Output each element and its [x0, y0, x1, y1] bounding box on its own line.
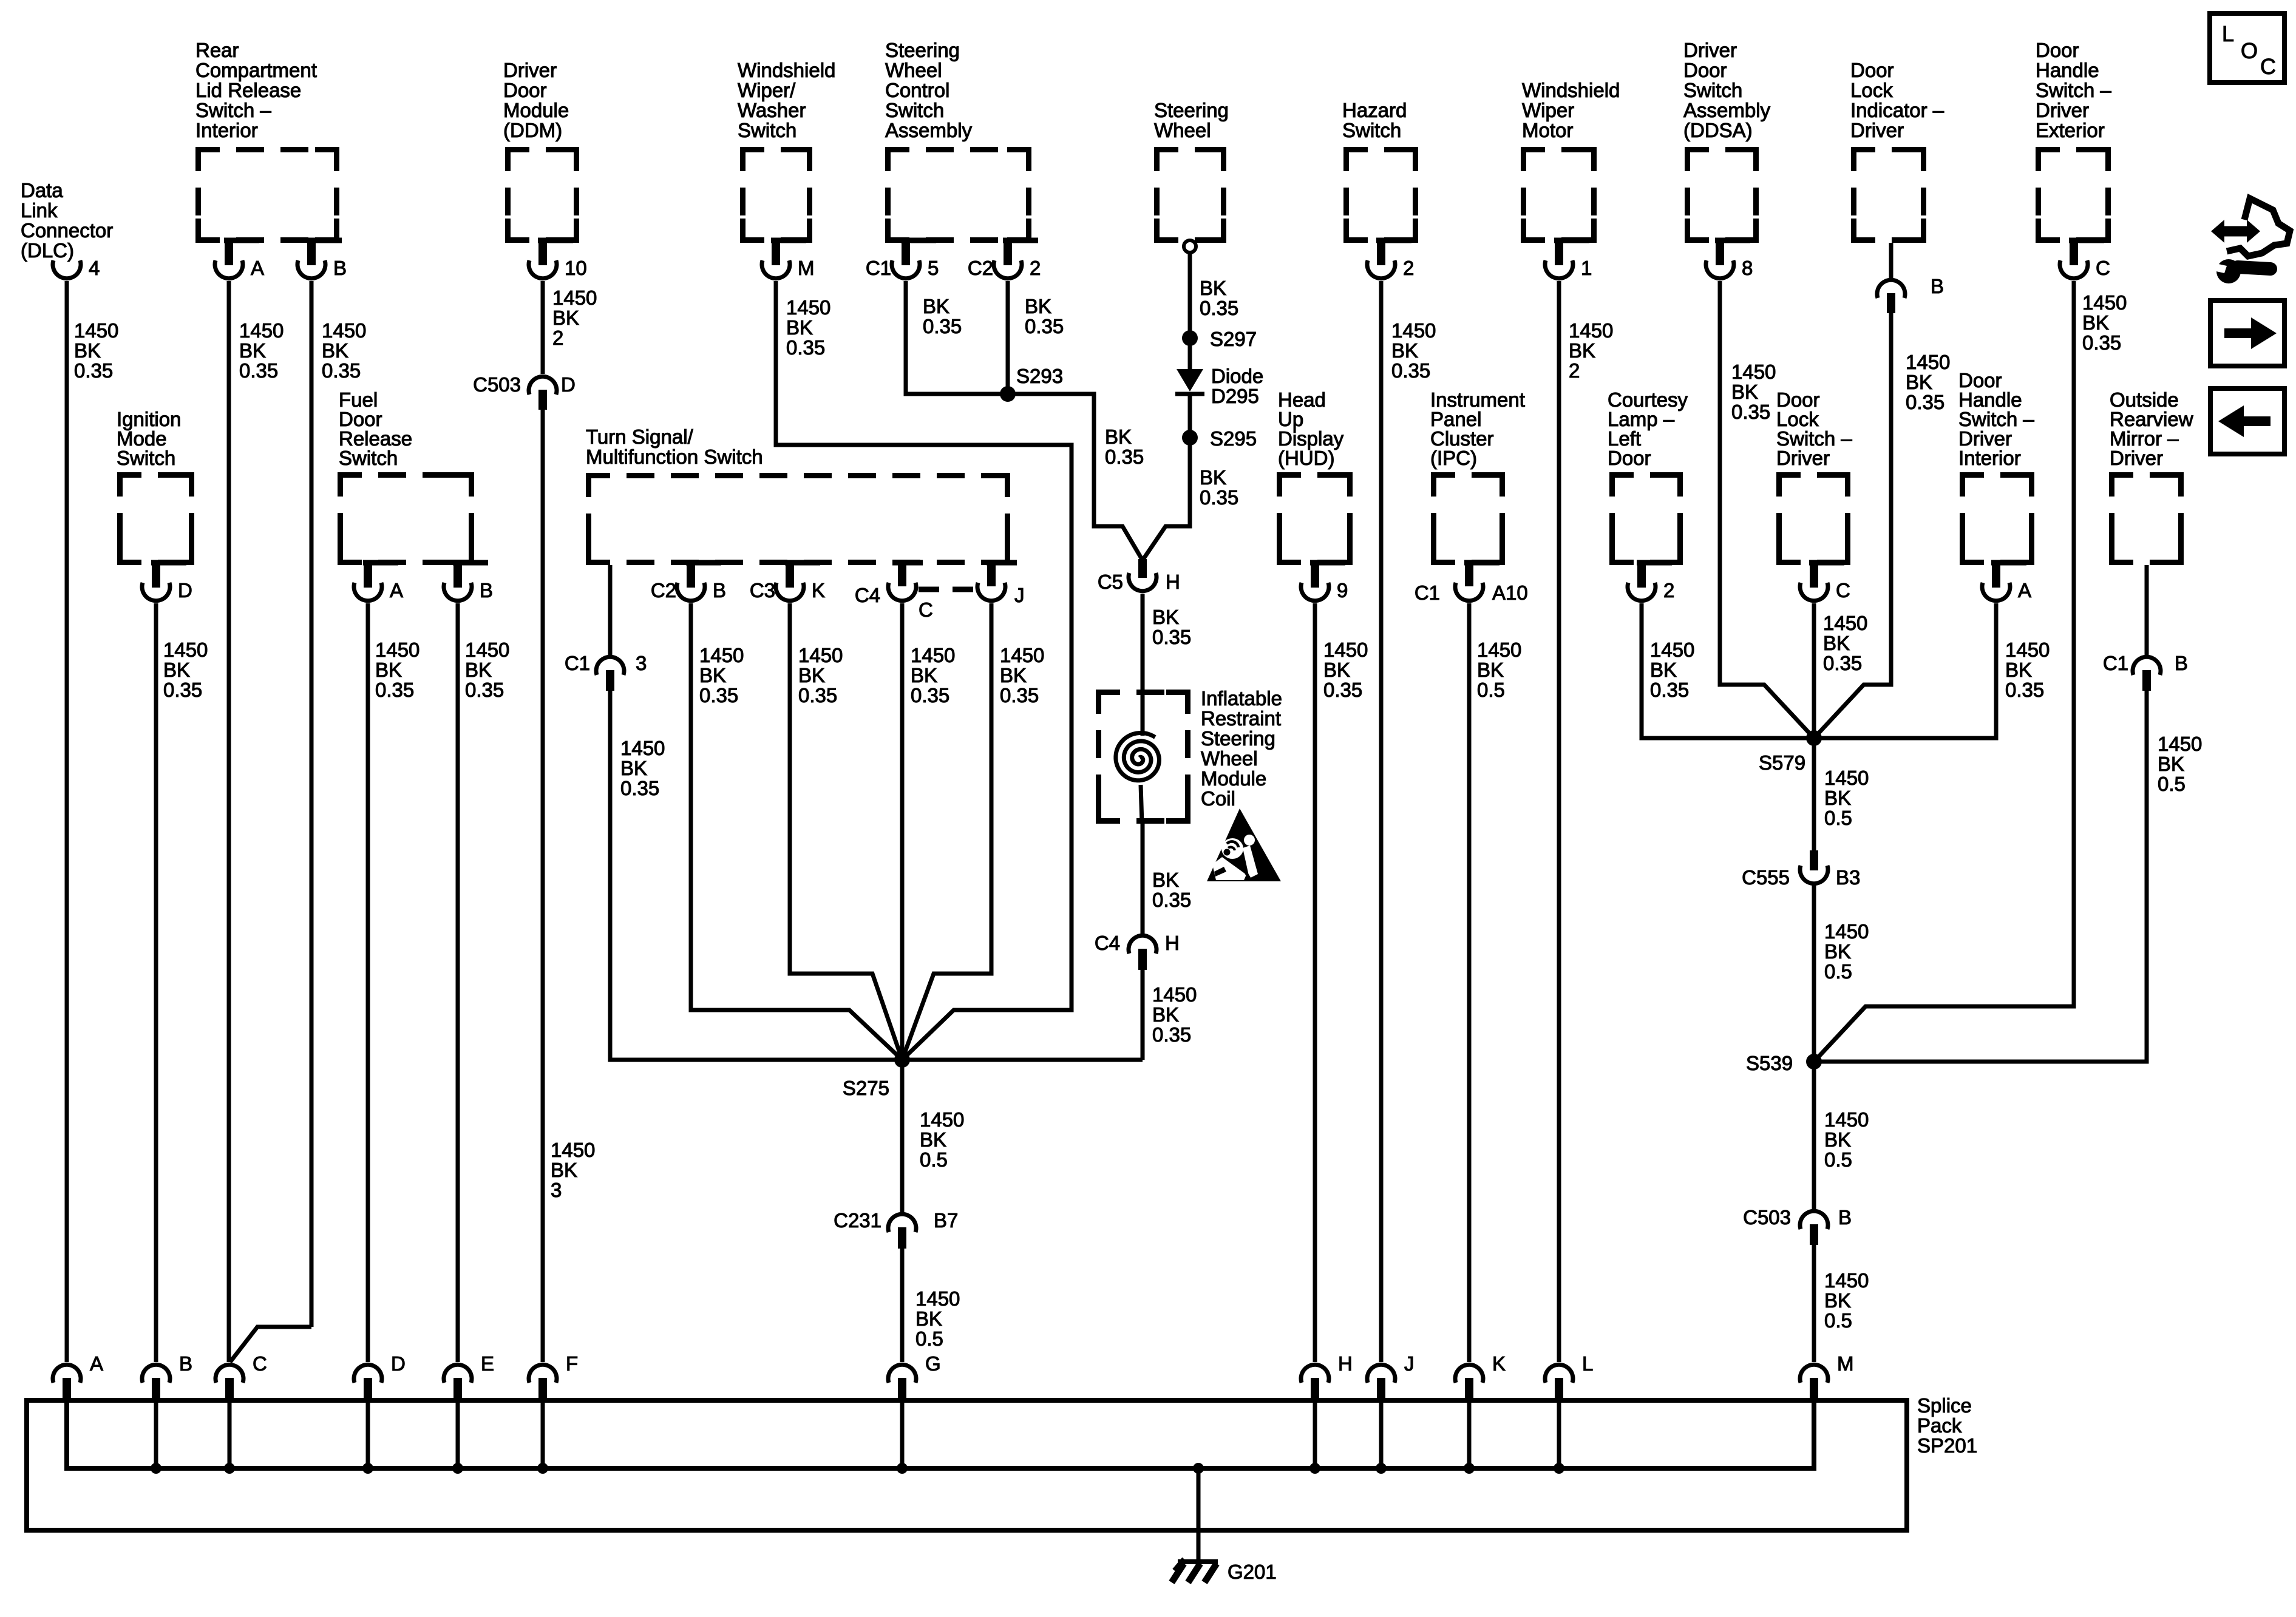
label 1450 BK 0.35 (fuel door pin B wire): [465, 639, 509, 701]
svg-text:C503: C503: [473, 373, 521, 396]
svg-text:Washer: Washer: [738, 99, 806, 121]
svg-text:Wheel: Wheel: [885, 59, 942, 81]
wire terminal A stub to ground bus corner: [65, 1398, 69, 1402]
svg-text:Driver: Driver: [1776, 447, 1830, 469]
svg-text:0.35: 0.35: [786, 336, 825, 359]
svg-text:C555: C555: [1742, 866, 1790, 889]
svg-text:1450: 1450: [1323, 639, 1368, 661]
wire C3-K to splice S275: [790, 603, 902, 1060]
wire turn signal C1 pin out of box: [608, 565, 613, 656]
label 1450 BK 0.35 (door handle exterior wire): [2082, 291, 2127, 354]
svg-text:0.35: 0.35: [1200, 297, 1238, 319]
label 1450 BK 0.35 (DLC ground wire): [74, 319, 118, 382]
svg-text:BK: BK: [375, 659, 402, 681]
svg-text:B: B: [1838, 1206, 1852, 1229]
component box: Inflatable Restraint Steering Wheel Module Coil: [1099, 687, 1282, 821]
svg-text:Switch: Switch: [885, 99, 944, 121]
svg-text:0.35: 0.35: [322, 359, 361, 382]
svg-text:0.35: 0.35: [239, 359, 278, 382]
svg-text:0.35: 0.35: [911, 684, 949, 707]
svg-text:Switch –: Switch –: [195, 99, 271, 121]
svg-text:S293: S293: [1016, 365, 1063, 387]
wire diode D295 to S295: [1188, 394, 1192, 438]
label 1450 BK 0.35 (rear compartment pin A wire): [239, 319, 284, 382]
svg-text:3: 3: [551, 1179, 562, 1201]
label 1450 BK 0.35 (C3-K wire): [798, 644, 843, 707]
svg-text:D: D: [391, 1352, 406, 1375]
svg-text:1450: 1450: [1391, 319, 1436, 342]
svg-text:1450: 1450: [1824, 767, 1869, 789]
connector C1 pin B of outside rearview mirror (inline): [2103, 652, 2188, 691]
svg-text:BK: BK: [74, 339, 101, 362]
svg-text:0.35: 0.35: [375, 679, 414, 701]
label 1450 BK 0.35 (pin M wire): [786, 296, 830, 359]
connector C503 pin D (inline): [473, 373, 576, 410]
svg-text:1450: 1450: [920, 1108, 964, 1131]
svg-text:0.35: 0.35: [1200, 486, 1238, 509]
navigation arrow icon (continued right): [2210, 300, 2284, 366]
splice pack terminal D: [354, 1352, 406, 1398]
svg-text:8: 8: [1742, 257, 1753, 279]
svg-text:0.35: 0.35: [699, 684, 738, 707]
component box: Steering Wheel Control Switch Assembly: [885, 39, 1029, 240]
svg-text:BK: BK: [920, 1128, 946, 1151]
svg-text:C: C: [2260, 54, 2276, 79]
svg-text:0.35: 0.35: [1650, 679, 1689, 701]
wire terminal B to ground bus: [151, 1398, 161, 1474]
label 1450 BK 0.35 (C4-C wire): [911, 644, 955, 707]
label 1450 BK 0.35 (hazard switch wire): [1391, 319, 1436, 382]
wire door handle interior pin A to splice S579: [1816, 603, 1996, 738]
svg-text:C1: C1: [565, 652, 590, 674]
wire terminal E to ground bus: [452, 1398, 463, 1474]
svg-text:Switch: Switch: [738, 119, 796, 141]
wire DLC pin 4 to splice pack terminal A: [65, 281, 69, 1362]
svg-text:Module: Module: [1201, 767, 1266, 790]
splice pack internal ground bus: [67, 1398, 1814, 1468]
svg-text:BK: BK: [2158, 753, 2184, 775]
connector pin B of door lock indicator (inline): [1877, 275, 1944, 313]
label 1450 BK 0.5 (ORM wire): [2158, 733, 2202, 795]
svg-text:1450: 1450: [1824, 1108, 1869, 1131]
svg-text:L: L: [2222, 21, 2234, 46]
wire ignition mode switch pin D to splice terminal B: [154, 603, 158, 1362]
wire fuel door release pin A to splice terminal D: [366, 603, 370, 1362]
svg-text:0.35: 0.35: [1152, 1023, 1191, 1046]
svg-text:S297: S297: [1210, 328, 1257, 350]
svg-text:Coil: Coil: [1201, 787, 1235, 810]
wire S275 to connector C231: [900, 1060, 905, 1213]
svg-text:1450: 1450: [1477, 639, 1521, 661]
svg-text:5: 5: [928, 257, 939, 279]
svg-text:1450: 1450: [2082, 291, 2127, 314]
component box: Hazard Switch: [1342, 99, 1416, 240]
svg-text:B: B: [713, 579, 726, 602]
wire terminal J to ground bus: [1376, 1398, 1387, 1474]
splice pack terminal B: [142, 1352, 192, 1398]
connector C5 pin H (to inflatable restraint coil): [1098, 559, 1180, 593]
svg-text:0.5: 0.5: [1824, 960, 1852, 983]
svg-text:Wiper: Wiper: [1522, 99, 1574, 121]
pin 4 of DLC: [53, 257, 100, 279]
svg-text:B3: B3: [1836, 866, 1860, 889]
wire hazard switch pin 2 to splice terminal J: [1379, 281, 1384, 1362]
svg-text:BK: BK: [1824, 787, 1851, 809]
svg-text:BK: BK: [465, 659, 492, 681]
svg-text:0.5: 0.5: [920, 1148, 948, 1171]
svg-text:D: D: [178, 579, 192, 602]
svg-text:Connector: Connector: [21, 219, 113, 242]
svg-text:1450: 1450: [375, 639, 419, 661]
svg-text:BK: BK: [1650, 659, 1677, 681]
pin C1 5 of steering wheel control switch assembly: [866, 240, 939, 279]
svg-text:0.35: 0.35: [74, 359, 113, 382]
pin C2 B of turn signal switch: [651, 563, 726, 602]
label 1450 BK 0.35 (rear compartment pin B wire): [322, 319, 366, 382]
splice pack terminal E: [444, 1352, 494, 1398]
svg-text:C: C: [1836, 579, 1850, 602]
svg-text:Pack: Pack: [1917, 1414, 1962, 1437]
label BK 0.35 (S295 output wire): [1200, 466, 1238, 509]
label 1450 BK 0.35 (C1-3 wire): [620, 737, 665, 799]
pin 2 of courtesy lamp: [1628, 563, 1674, 602]
label 1450 BK 0.35 (DDSA pin 8 wire): [1731, 361, 1776, 423]
splice pack terminal M: [1800, 1352, 1854, 1398]
wire wiper/washer switch pin M to splice S275 (jogged): [776, 281, 1072, 1060]
label 1450 BK 0.5 (IPC wire): [1477, 639, 1521, 701]
svg-text:BK: BK: [1323, 659, 1350, 681]
svg-text:BK: BK: [1000, 664, 1027, 686]
svg-text:1450: 1450: [786, 296, 830, 319]
svg-text:Turn Signal/: Turn Signal/: [586, 425, 694, 448]
label BK 0.35 (steering wheel wire): [1200, 277, 1238, 319]
svg-text:Switch: Switch: [1683, 79, 1742, 101]
pin A of rear compartment lid release switch: [215, 240, 264, 279]
component box: Data Link Connector (DLC): [21, 179, 113, 262]
label 1450 BK 2 (wiper motor wire): [1569, 319, 1613, 382]
label BK 0.35 (C2-2 wire): [1025, 295, 1064, 337]
component box: Door Lock Switch - Driver: [1776, 388, 1852, 563]
wire C555-B3 to splice S539: [1812, 884, 1816, 1062]
svg-text:1450: 1450: [1823, 612, 1867, 634]
svg-text:Inflatable: Inflatable: [1201, 687, 1282, 710]
label 1450 BK 0.5 (C231 to terminal G wire): [915, 1287, 960, 1350]
svg-text:A: A: [390, 579, 403, 602]
svg-text:S275: S275: [843, 1077, 889, 1099]
label 1450 BK 3 (wire to terminal F): [551, 1139, 595, 1201]
svg-text:1450: 1450: [163, 639, 208, 661]
svg-text:0.35: 0.35: [1906, 391, 1944, 413]
wire C231-B7 to splice terminal G: [900, 1249, 905, 1362]
wire ORM C1-B to splice S539: [1816, 691, 2147, 1062]
splice pack terminal J: [1367, 1352, 1415, 1398]
component box: Ignition Mode Switch: [117, 408, 192, 563]
svg-text:Door: Door: [503, 79, 547, 101]
svg-text:2: 2: [552, 327, 563, 349]
svg-text:Indicator –: Indicator –: [1850, 99, 1944, 121]
wire C1-5 to splice S293: [906, 281, 1005, 394]
svg-text:C: C: [253, 1352, 267, 1375]
svg-text:0.5: 0.5: [915, 1327, 943, 1350]
label BK 0.35 (S293 output wire): [1105, 425, 1144, 468]
svg-text:Switch: Switch: [339, 447, 398, 469]
svg-text:Hazard: Hazard: [1342, 99, 1407, 121]
svg-text:C503: C503: [1743, 1206, 1791, 1229]
label 1450 BK 2 (DDM pin 10 wire): [552, 286, 597, 349]
svg-text:1450: 1450: [1731, 361, 1776, 383]
svg-text:Driver: Driver: [2036, 99, 2089, 121]
svg-text:BK: BK: [620, 757, 647, 779]
svg-text:2: 2: [1569, 359, 1580, 382]
svg-text:Steering: Steering: [1154, 99, 1229, 121]
wire terminal D to ground bus: [362, 1398, 373, 1474]
wire door handle exterior pin C to splice S539: [1814, 281, 2074, 1062]
svg-text:BK: BK: [1391, 339, 1418, 362]
component box: Courtesy Lamp - Left Door: [1608, 388, 1688, 563]
svg-text:M: M: [798, 257, 815, 279]
svg-text:C4: C4: [1095, 932, 1120, 954]
wire terminal G to ground bus: [897, 1398, 908, 1474]
splice S295: [1182, 427, 1257, 450]
wire door lock indicator to connector pin B: [1889, 243, 1894, 279]
wire C1-3 to splice S275: [610, 691, 898, 1060]
svg-text:S579: S579: [1759, 751, 1805, 774]
svg-text:BK: BK: [1477, 659, 1504, 681]
pin B of rear compartment lid release switch: [297, 240, 347, 279]
svg-text:F: F: [566, 1352, 578, 1375]
svg-text:A: A: [251, 257, 264, 279]
svg-text:(IPC): (IPC): [1430, 447, 1477, 469]
svg-text:9: 9: [1337, 579, 1348, 602]
label BK 0.35 (coil output wire): [1152, 869, 1191, 911]
svg-text:Splice: Splice: [1917, 1394, 1972, 1417]
svg-text:Restraint: Restraint: [1201, 707, 1281, 730]
splice pack terminal A: [53, 1352, 103, 1398]
svg-text:1450: 1450: [911, 644, 955, 666]
svg-text:0.35: 0.35: [1000, 684, 1039, 707]
component box: Turn Signal/Multifunction Switch: [586, 425, 1008, 563]
label 1450 BK 0.5 (C555 to S539 wire): [1824, 920, 1869, 983]
coil spiral (clockspring): [1116, 690, 1160, 824]
pin 9 of HUD: [1301, 563, 1348, 602]
svg-text:J: J: [1404, 1352, 1415, 1375]
svg-text:B: B: [333, 257, 347, 279]
wire C2-2 to splice S293: [1006, 281, 1010, 394]
diode D295: [1175, 365, 1263, 407]
svg-text:BK: BK: [2005, 659, 2032, 681]
svg-text:BK: BK: [163, 659, 190, 681]
pin A of door handle switch interior: [1982, 563, 2031, 602]
splice pack SP201 box: [27, 1394, 1977, 1530]
svg-text:BK: BK: [1105, 425, 1132, 448]
svg-text:Data: Data: [21, 179, 63, 202]
svg-text:(DLC): (DLC): [21, 239, 74, 262]
component box: Outside Rearview Mirror - Driver: [2110, 388, 2193, 563]
svg-text:0.5: 0.5: [1477, 679, 1505, 701]
svg-text:0.35: 0.35: [1731, 401, 1770, 423]
svg-text:Diode: Diode: [1211, 365, 1263, 387]
component box: Fuel Door Release Switch: [339, 388, 472, 563]
svg-text:Rear: Rear: [195, 39, 239, 61]
component box: Driver Door Switch Assembly (DDSA): [1683, 39, 1771, 240]
splice S539: [1746, 1052, 1822, 1074]
label BK 0.35 (C1-5 wire): [923, 295, 962, 337]
wire door lock switch pin C to splice S579: [1812, 603, 1816, 738]
svg-text:0.35: 0.35: [1025, 315, 1064, 337]
connector C1 pin 3 of turn signal switch (inline): [565, 652, 647, 691]
ground G201 symbol: [1172, 1559, 1277, 1583]
wire wiper motor pin 1 to splice terminal L: [1557, 281, 1561, 1362]
component box: Door Handle Switch - Driver Interior: [1958, 369, 2034, 563]
label 1450 BK 0.35 (C2-B wire): [699, 644, 744, 707]
wire S539 branch to door handle exterior (diagonal riser): [1814, 1006, 1866, 1062]
svg-text:D295: D295: [1211, 385, 1259, 407]
svg-text:K: K: [812, 579, 825, 602]
svg-text:BK: BK: [552, 307, 579, 329]
svg-text:(DDSA): (DDSA): [1683, 119, 1753, 141]
pin B of fuel door release switch: [444, 563, 493, 602]
svg-text:Door: Door: [2036, 39, 2079, 61]
svg-text:BK: BK: [923, 295, 949, 317]
svg-text:Motor: Motor: [1522, 119, 1573, 141]
svg-text:BK: BK: [239, 339, 266, 362]
svg-text:Interior: Interior: [1958, 447, 2021, 469]
wire C4-C to splice S275: [900, 603, 905, 1060]
svg-text:1450: 1450: [1569, 319, 1613, 342]
svg-text:Switch –: Switch –: [2036, 79, 2111, 101]
svg-text:1450: 1450: [74, 319, 118, 342]
svg-text:0.5: 0.5: [1824, 1148, 1852, 1171]
pin A of fuel door release switch: [354, 563, 403, 602]
svg-text:BK: BK: [2082, 311, 2109, 334]
svg-text:Handle: Handle: [2036, 59, 2099, 81]
svg-text:BK: BK: [915, 1307, 942, 1330]
svg-text:0.5: 0.5: [1824, 1309, 1852, 1332]
svg-text:BK: BK: [551, 1159, 577, 1181]
svg-text:1450: 1450: [798, 644, 843, 666]
wire fuel door release pin B to splice terminal E: [456, 603, 460, 1362]
label BK 0.35 (C5-H wire): [1152, 606, 1191, 648]
svg-text:Driver: Driver: [503, 59, 557, 81]
wire C2-B to splice S275: [691, 603, 902, 1060]
label 1450 BK 0.35 (HUD wire): [1323, 639, 1368, 701]
svg-text:BK: BK: [1200, 277, 1226, 299]
wire S579 to connector C555: [1812, 738, 1816, 852]
svg-text:0.35: 0.35: [1152, 626, 1191, 648]
component box: Rear Compartment Lid Release Switch - Interior: [195, 39, 337, 240]
svg-text:Steering: Steering: [1201, 727, 1275, 750]
svg-text:C: C: [2096, 257, 2110, 279]
svg-text:BK: BK: [786, 316, 813, 339]
svg-text:G: G: [925, 1352, 941, 1375]
label 1450 BK 0.35 (fuel door pin A wire): [375, 639, 419, 701]
svg-text:Windshield: Windshield: [1522, 79, 1620, 101]
svg-text:BK: BK: [1731, 381, 1758, 403]
svg-text:1450: 1450: [239, 319, 284, 342]
svg-text:1450: 1450: [1650, 639, 1694, 661]
svg-text:B: B: [480, 579, 493, 602]
svg-text:0.35: 0.35: [923, 315, 962, 337]
svg-text:C5: C5: [1098, 571, 1123, 593]
connector C555 pin B3 (inline): [1742, 850, 1860, 889]
svg-text:1450: 1450: [915, 1287, 960, 1310]
svg-text:A: A: [90, 1352, 103, 1375]
svg-text:0.35: 0.35: [1152, 889, 1191, 911]
label 1450 BK 0.5 (S579 to C555 wire): [1824, 767, 1869, 829]
navigation arrow icon (continued left): [2210, 388, 2284, 454]
svg-text:Wiper/: Wiper/: [738, 79, 796, 101]
connector C503 pin B (inline): [1743, 1206, 1852, 1245]
label 1450 BK 0.35 (ignition mode switch wire): [163, 639, 208, 701]
wire terminal F to ground bus: [537, 1398, 548, 1474]
component box: Steering Wheel: [1154, 99, 1229, 240]
svg-text:0.35: 0.35: [2082, 331, 2121, 354]
wire courtesy lamp pin 2 to splice S579: [1642, 603, 1812, 738]
svg-text:Exterior: Exterior: [2036, 119, 2105, 141]
wire coil to connector C4 pin H: [1141, 824, 1145, 935]
wire S539 to connector C503 pin B: [1812, 1062, 1816, 1210]
svg-text:C4: C4: [855, 584, 880, 606]
svg-text:A10: A10: [1492, 581, 1528, 604]
svg-text:1450: 1450: [465, 639, 509, 661]
component box: Driver Door Module (DDM): [503, 59, 577, 240]
svg-text:2: 2: [1030, 257, 1041, 279]
splice pack terminal K: [1455, 1352, 1506, 1398]
component box: Door Handle Switch - Driver Exterior: [2036, 39, 2111, 240]
svg-text:G201: G201: [1228, 1561, 1277, 1583]
svg-text:0.35: 0.35: [1391, 359, 1430, 382]
svg-text:0.35: 0.35: [465, 679, 504, 701]
wire indicator pin B to splice S579: [1814, 313, 1891, 738]
svg-text:0.35: 0.35: [620, 777, 659, 799]
svg-text:0.35: 0.35: [798, 684, 837, 707]
svg-text:BK: BK: [911, 664, 937, 686]
wire S295 to coil junction: [1143, 438, 1190, 560]
splice S579: [1759, 730, 1822, 774]
wire C4-H down to splice S275 bus: [1141, 970, 1145, 1060]
svg-text:Door: Door: [1683, 59, 1727, 81]
svg-text:B: B: [179, 1352, 192, 1375]
component box: Door Lock Indicator - Driver: [1850, 59, 1944, 240]
svg-text:L: L: [1582, 1352, 1593, 1375]
svg-text:2: 2: [1403, 257, 1414, 279]
svg-text:BK: BK: [1569, 339, 1595, 362]
svg-text:Driver: Driver: [2110, 447, 2163, 469]
svg-text:0.35: 0.35: [2005, 679, 2044, 701]
svg-text:4: 4: [89, 257, 100, 279]
label 1450 BK 0.35 (door lock switch wire): [1823, 612, 1867, 674]
svg-text:Switch: Switch: [1342, 119, 1401, 141]
label 1450 BK 0.5 (S539 to C503 wire): [1824, 1108, 1869, 1171]
svg-text:1450: 1450: [552, 286, 597, 309]
svg-text:C1: C1: [2103, 652, 2128, 674]
splice pack terminal H: [1301, 1352, 1353, 1398]
svg-text:0.35: 0.35: [1323, 679, 1362, 701]
svg-text:1450: 1450: [1824, 920, 1869, 943]
label 1450 BK 0.35 (J wire): [1000, 644, 1044, 707]
svg-text:C1: C1: [866, 257, 891, 279]
svg-text:BK: BK: [1152, 606, 1179, 628]
dashed connector jumper between C4 and J pins: [919, 587, 976, 592]
svg-text:0.5: 0.5: [1824, 807, 1852, 829]
svg-text:1450: 1450: [322, 319, 366, 342]
label 1450 BK 0.35 (door handle interior wire): [2005, 639, 2050, 701]
pin 1 of windshield wiper motor: [1545, 240, 1592, 279]
svg-text:Module: Module: [503, 99, 569, 121]
svg-text:Assembly: Assembly: [1683, 99, 1771, 121]
splice pack terminal C: [216, 1352, 267, 1398]
svg-text:BK: BK: [1025, 295, 1051, 317]
